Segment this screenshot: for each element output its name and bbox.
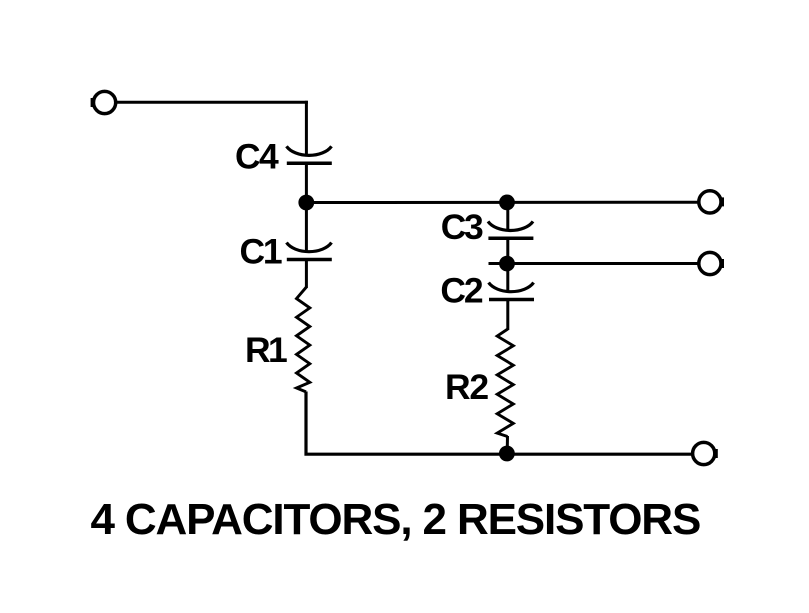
svg-text:4 CAPACITORS, 2 RESISTORS: 4 CAPACITORS, 2 RESISTORS xyxy=(91,495,701,544)
node C (junction dot at bottom of R2) xyxy=(499,446,515,462)
terminal E1 (top left input) xyxy=(91,91,116,113)
wire C3 to node D xyxy=(506,238,509,263)
wire stub left of node D and out to terminal E3 xyxy=(489,262,700,265)
capacitor C4 xyxy=(287,146,332,163)
wire node D down to C2 xyxy=(506,264,509,293)
svg-text:C3: C3 xyxy=(441,207,483,247)
terminal E4 (lower right output) xyxy=(693,442,718,464)
capacitor C2 xyxy=(489,283,534,300)
svg-text:C1: C1 xyxy=(240,231,282,271)
wire node A to terminal E2 (top output wire) xyxy=(306,201,699,204)
wire node B down to C3 xyxy=(506,202,509,230)
terminal E2 (upper right output) xyxy=(699,191,724,213)
resistor R2 xyxy=(497,329,513,437)
node B (junction dot at C3 top) xyxy=(499,195,515,211)
wire vertical corner down to C4 xyxy=(305,101,308,156)
wire C1 to R1 xyxy=(305,260,308,289)
wire C2 to R2 xyxy=(506,300,509,331)
wire R1 down and bottom wire to terminal E4 xyxy=(306,392,692,455)
capacitor C1 xyxy=(287,243,332,260)
wire top-left horizontal from E1 to corner xyxy=(116,101,308,104)
capacitor C3 xyxy=(488,221,533,238)
svg-text:C2: C2 xyxy=(440,270,482,310)
svg-text:R2: R2 xyxy=(445,367,488,407)
node A (junction dot under C4) xyxy=(298,195,314,211)
terminal E3 (middle right output) xyxy=(699,252,724,274)
wire R2 to node C xyxy=(506,436,509,454)
node D (junction dot between C3 and C2) xyxy=(499,256,515,272)
wire node A down to C1 xyxy=(305,203,308,253)
resistor R1 xyxy=(297,287,310,392)
svg-text:C4: C4 xyxy=(235,137,279,177)
wire C4 to node A xyxy=(305,163,308,202)
svg-text:R1: R1 xyxy=(245,330,287,370)
